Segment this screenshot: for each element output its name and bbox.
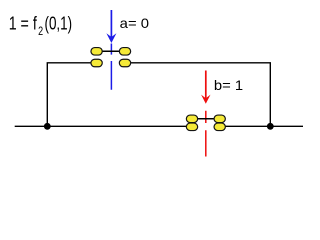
svg-text:b= 1: b= 1: [214, 77, 243, 93]
svg-text:2: 2: [38, 24, 43, 38]
svg-text:a= 0: a= 0: [120, 15, 150, 31]
svg-text:(0,1): (0,1): [45, 13, 73, 33]
svg-text:1 = f: 1 = f: [9, 13, 38, 33]
